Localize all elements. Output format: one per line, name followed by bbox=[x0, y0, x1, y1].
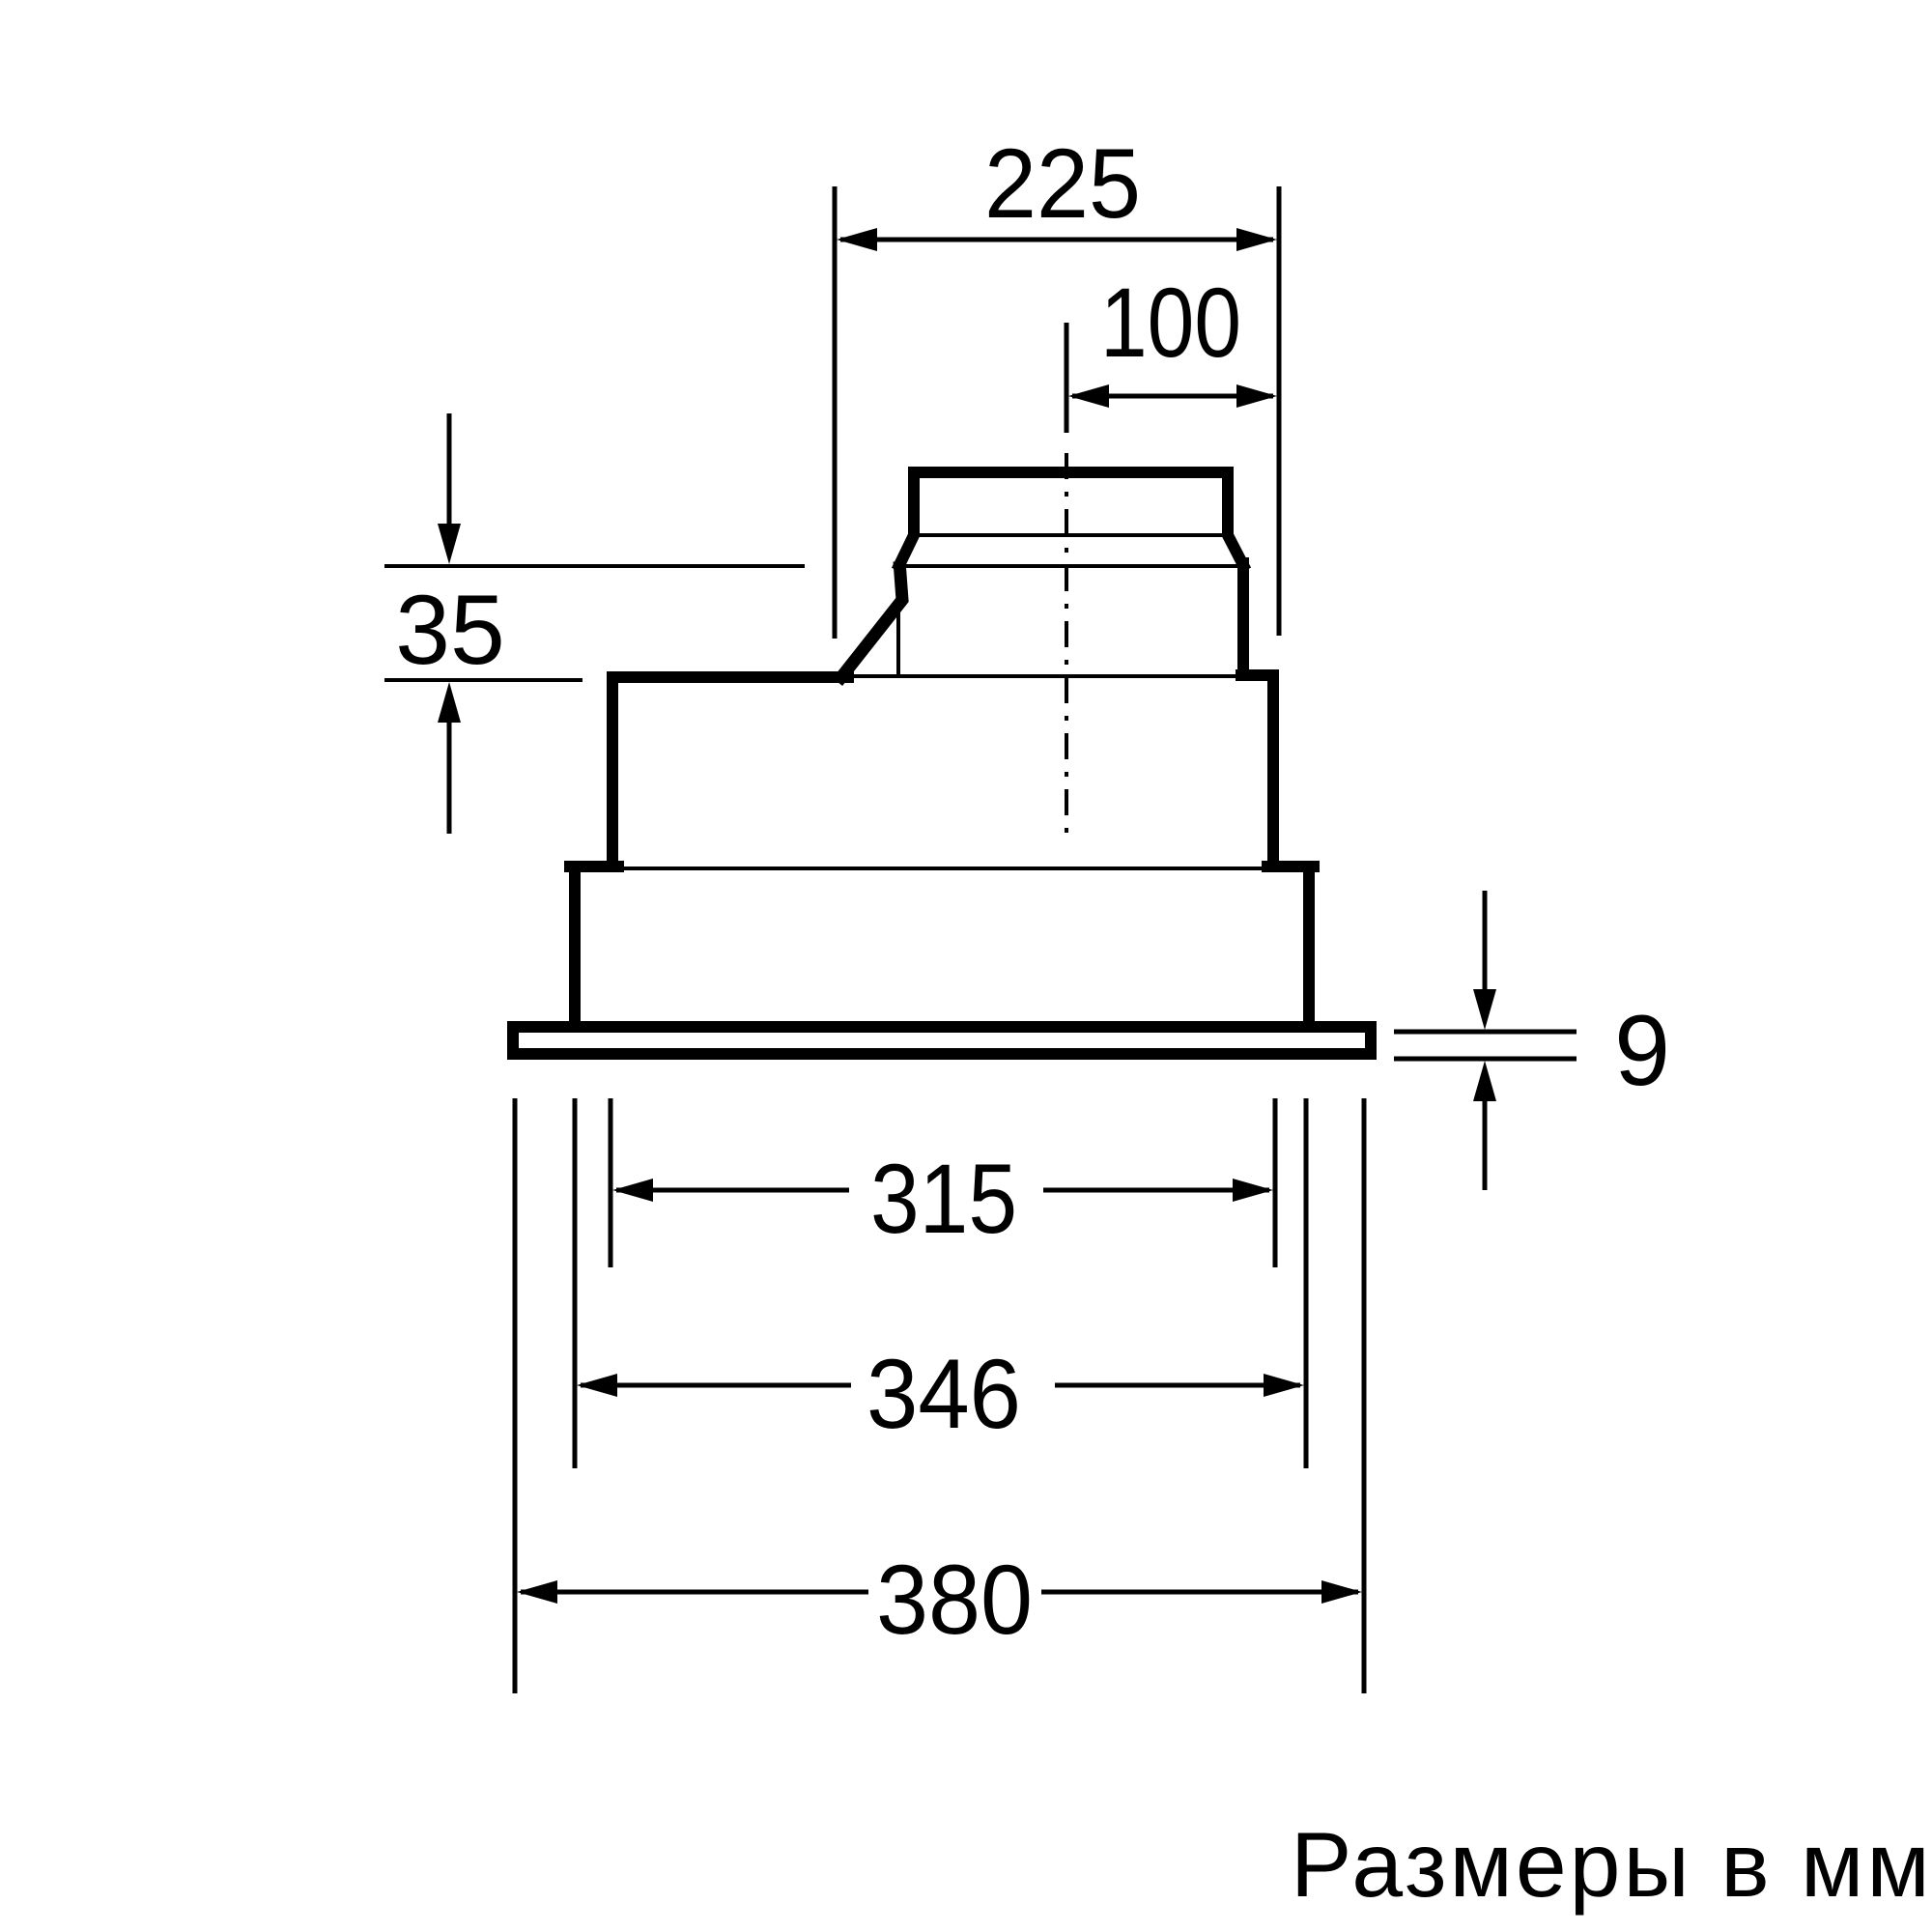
collar step line 1 (thin) bbox=[914, 533, 1228, 537]
346 left arrowhead bbox=[577, 1374, 617, 1397]
225 dimension line bbox=[840, 238, 1273, 242]
35 up arrowhead bbox=[438, 682, 461, 723]
35 upper reference line bbox=[384, 564, 805, 568]
upper box left edge bbox=[607, 677, 618, 867]
bottom flange bbox=[513, 1027, 1371, 1054]
9 upper tick line bbox=[1394, 1030, 1577, 1035]
lower box right edge bbox=[1303, 867, 1315, 1026]
lower box left edge bbox=[569, 867, 581, 1026]
100 left arrowhead bbox=[1068, 384, 1109, 408]
collar step line 2 (thin) bbox=[899, 564, 1243, 568]
svg-text:35: 35 bbox=[395, 575, 504, 685]
35 down arrowhead bbox=[438, 524, 461, 564]
380 right arrowhead bbox=[1321, 1580, 1362, 1604]
315 left extension line bbox=[609, 1098, 613, 1267]
35 up-arrow line bbox=[447, 719, 452, 834]
upper box right edge bbox=[1267, 675, 1279, 867]
346 dimension line left segment bbox=[581, 1383, 851, 1388]
346 right extension line bbox=[1304, 1098, 1309, 1468]
225 right extension line bbox=[1277, 186, 1282, 636]
380 dimension line left segment bbox=[521, 1590, 868, 1595]
hood top surface left (thick) bbox=[612, 671, 848, 683]
315 dimension line right segment bbox=[1043, 1188, 1269, 1193]
collar hidden edge (thin vertical) bbox=[896, 607, 900, 675]
centerline (dash-dot) bbox=[1065, 453, 1068, 833]
collar left lower edge and slant (thick polyline) bbox=[838, 561, 902, 682]
collar right lower edge bbox=[1237, 563, 1249, 675]
315 right arrowhead bbox=[1233, 1179, 1273, 1202]
right step ledge bbox=[1267, 861, 1314, 872]
380 dimension line right segment bbox=[1041, 1590, 1358, 1595]
100 tick line bbox=[1065, 323, 1069, 433]
svg-text:100: 100 bbox=[1100, 268, 1241, 378]
9 up-arrow line bbox=[1483, 1097, 1488, 1190]
arrowheads bbox=[438, 228, 1496, 1604]
225 left arrowhead bbox=[837, 228, 877, 251]
346 left extension line bbox=[573, 1098, 578, 1468]
svg-text:Размеры в мм: Размеры в мм bbox=[1291, 1814, 1932, 1917]
left step ledge bbox=[570, 861, 618, 872]
346 right arrowhead bbox=[1264, 1374, 1304, 1397]
svg-text:380: 380 bbox=[876, 1545, 1033, 1655]
hood top surface middle (thin) bbox=[846, 674, 1246, 678]
hood top surface right step (thick) bbox=[1241, 669, 1273, 681]
9 up arrowhead bbox=[1473, 1061, 1496, 1101]
100 dimension line bbox=[1072, 394, 1273, 399]
225 left extension line bbox=[833, 186, 838, 639]
380 left arrowhead bbox=[517, 1580, 557, 1604]
duct collar outline (thick) bbox=[899, 472, 1243, 565]
svg-text:225: 225 bbox=[984, 128, 1141, 239]
346 dimension line right segment bbox=[1055, 1383, 1300, 1388]
315 left arrowhead bbox=[612, 1179, 653, 1202]
svg-text:346: 346 bbox=[867, 1339, 1021, 1449]
9 down arrowhead bbox=[1473, 989, 1496, 1030]
35 down-arrow line bbox=[447, 413, 452, 529]
35 lower reference line bbox=[384, 678, 582, 682]
lower box top line (thin) bbox=[576, 867, 1308, 870]
9 lower tick line bbox=[1394, 1057, 1577, 1062]
225 right arrowhead bbox=[1236, 228, 1277, 251]
100 right arrowhead bbox=[1236, 384, 1277, 408]
315 right extension line bbox=[1273, 1098, 1278, 1267]
380 right extension line bbox=[1362, 1098, 1367, 1693]
9 down-arrow line bbox=[1483, 891, 1488, 993]
svg-text:315: 315 bbox=[870, 1144, 1017, 1254]
svg-text:9: 9 bbox=[1614, 995, 1670, 1107]
380 left extension line bbox=[513, 1098, 518, 1693]
315 dimension line left segment bbox=[616, 1188, 849, 1193]
